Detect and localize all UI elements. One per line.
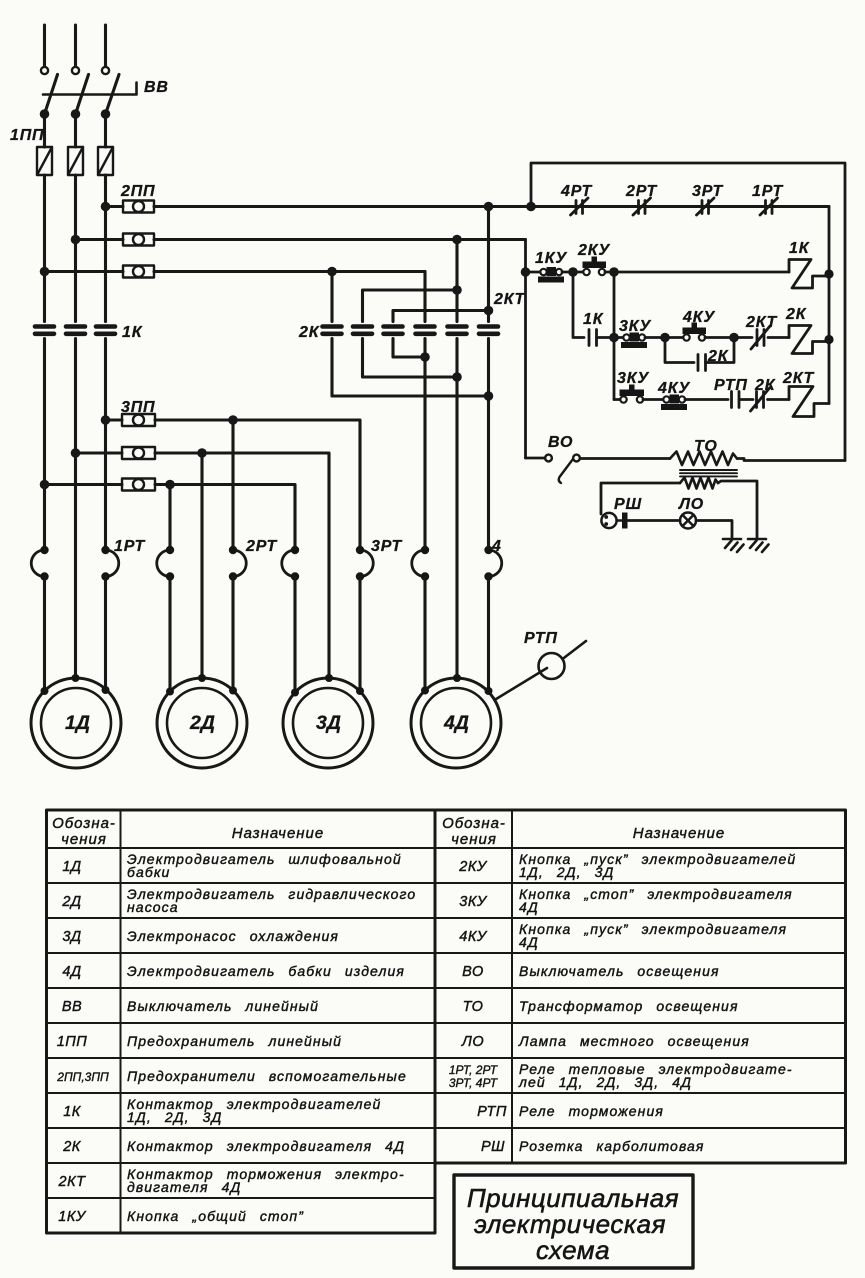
wire L2 fuse to contact [74,175,77,322]
svg-text:2ПП,3ПП: 2ПП,3ПП [56,1070,109,1084]
wire branch F upper [487,207,490,322]
svg-text:2КТ: 2КТ [782,370,815,387]
wire top bypass to outer rail [531,163,845,461]
wire fuse1 output to control [154,205,829,208]
relay contact 2RT [633,198,651,215]
wire feeder to VO switch [526,457,546,460]
contact 2KT NC row2 [751,326,770,349]
junction row2 after 4KU [729,333,739,343]
svg-text:4Д: 4Д [62,964,81,980]
junction L3 below switch [101,109,111,119]
junction L1 below switch [40,109,50,119]
wire phase L1 incoming [43,25,46,67]
table header texts [52,815,725,848]
svg-text:Электродвигатель бабки изделия: Электродвигатель бабки изделия [127,963,405,979]
transformer TO primary winding [670,452,737,466]
thermal element 4RT right [484,546,501,581]
svg-text:Контактор электродвигателя 4Д: Контактор электродвигателя 4Д [127,1138,405,1154]
wire row1 seg2 [562,271,583,274]
svg-text:1К: 1К [583,311,604,328]
svg-text:Кнопка „стоп” электродвигателя: Кнопка „стоп” электродвигателя [519,886,793,902]
contactor 2K contact B [353,327,372,334]
table left column texts [56,851,416,1225]
junction row2 before 4KU [660,333,670,343]
junction E at B top join [452,285,462,295]
contactor 2KT contact F [479,327,498,334]
switch BB blade 2 [76,75,89,115]
contactor 1K main contact pole 2 [66,327,85,334]
svg-text:2КУ: 2КУ [577,242,610,259]
motor 4D [411,674,501,768]
relay contact 3RT [697,198,715,215]
relay coil 1K [789,260,829,289]
svg-text:4Д: 4Д [443,712,469,734]
title box frame [454,1175,693,1268]
wire branch E lower to motor4 mid [455,339,458,678]
wire row3 seg4 [739,398,753,401]
wire L2 contact to 3PP [74,339,77,678]
table row lines right [435,848,846,1128]
svg-text:2КТ: 2КТ [58,1174,87,1190]
junction L2 at 2PP branch [71,235,81,245]
contact RTP row3 [732,392,740,408]
relay coil 2KT [789,387,829,417]
svg-text:Реле торможения: Реле торможения [519,1103,664,1119]
svg-text:РШ: РШ [614,496,642,513]
wire phase L2 incoming [74,25,77,67]
svg-text:1РТ: 1РТ [752,183,784,200]
svg-text:1Д: 1Д [65,712,90,734]
wire drop motor2 left [168,485,171,550]
wire fuse2 output [154,238,526,241]
wire L3 contact to 3PP [104,339,107,550]
wire row2 to 2K coil [768,336,789,339]
svg-text:чения: чения [451,831,497,848]
svg-text:Предохранители вспомогательные: Предохранители вспомогательные [127,1068,407,1084]
svg-text:двигателя 4Д: двигателя 4Д [127,1179,241,1195]
svg-text:Выключатель освещения: Выключатель освещения [519,963,720,979]
wire branch B lower to E [363,339,458,378]
svg-text:1КУ: 1КУ [58,1209,87,1225]
contact 2K NC row3 [751,388,770,411]
svg-text:3КУ: 3КУ [459,894,488,910]
svg-text:1ПП: 1ПП [10,127,44,144]
motor 1D [31,674,121,768]
junction rail at 1K coil [824,269,833,278]
junction F at A bottom join [484,391,494,401]
junction L2 below switch [71,109,81,119]
svg-text:3КУ: 3КУ [619,318,651,335]
wire fuse3 output [154,270,425,273]
svg-text:2К: 2К [62,1139,82,1155]
button 3KU row3 [620,385,645,403]
wire motor3 leads [295,577,360,692]
svg-text:бабки: бабки [127,864,170,880]
junction L2 at 3PP branch [71,448,81,458]
svg-text:1К: 1К [789,240,810,257]
contactor 1K main contact pole 3 [96,327,115,334]
button 4KU row3 [661,395,687,411]
svg-text:2К: 2К [785,306,807,323]
junction feeder at row1 [521,267,531,277]
svg-text:1РТ, 2РТ: 1РТ, 2РТ [449,1063,499,1077]
wire L3 switch to fuse [104,114,107,147]
wire branch A upper [330,272,333,322]
table right column texts [449,851,796,1155]
svg-text:4КУ: 4КУ [682,309,715,326]
motor 3D [283,674,373,768]
button 4KU row2 [683,323,707,341]
junction row1 after 2KU [609,267,619,277]
svg-text:ЛО: ЛО [678,496,704,513]
wire branch A lower to F [332,339,489,397]
wire 3PP-1 output to motor3 right [155,420,360,550]
transformer TO core [680,470,737,476]
wire row3 seg2 [643,398,663,401]
button 3KU row2 [621,333,647,349]
relay RTP sensor [495,641,587,700]
wire drop motor2 mid [200,453,203,678]
wire L3 fuse to contact [104,175,107,322]
svg-text:Назначение: Назначение [633,825,725,842]
wire branch B upper from E [363,290,458,322]
wire row2 start [614,336,623,339]
contact 1K aux [589,330,597,346]
wire row3 start [614,398,620,401]
contactor 2K contact C [384,327,403,334]
svg-text:2РТ: 2РТ [245,538,278,555]
wire drop motor2 right [231,420,234,550]
svg-text:2Д: 2Д [189,712,215,734]
svg-text:3Д: 3Д [316,712,341,734]
wire hold branch to node [597,336,615,339]
svg-text:Кнопка „пуск” электродвигателя: Кнопка „пуск” электродвигателя [519,921,787,937]
svg-text:3Д: 3Д [62,929,81,945]
wire primary right to outer rail [737,459,845,461]
svg-text:РТП: РТП [524,630,558,647]
svg-text:2К: 2К [754,377,776,394]
junction 3PP-3 to motor2 left [165,480,175,490]
svg-text:РШ: РШ [481,1139,505,1155]
svg-text:3РТ, 4РТ: 3РТ, 4РТ [449,1076,499,1090]
junction L3 at 2PP branch [101,202,111,212]
relay coil 2K [789,326,829,354]
svg-text:2РТ: 2РТ [625,183,658,200]
switch VO [545,455,580,483]
wire socket to lamp [628,519,681,522]
wire secondary left to socket [601,483,680,514]
wire row3 seg3 [685,398,728,401]
junction F at C top join [484,306,494,316]
relay contact 4RT [571,198,589,215]
wire row2 seg3 [705,336,752,339]
svg-text:ВВ: ВВ [62,999,82,1015]
switch BB pole 3 hinge [102,67,109,74]
thermal element 1RT left [31,546,48,581]
wire 2K hold branch right [706,338,735,363]
lamp LO [680,513,696,529]
wire secondary right to ground [718,481,757,537]
svg-text:Обозна-: Обозна- [52,815,116,832]
thermal element 2RT left [157,546,174,581]
fuse 3PP-3 [45,479,156,491]
svg-text:2КТ: 2КТ [493,291,526,308]
wire phase L3 incoming [104,25,107,67]
svg-text:1К: 1К [122,324,143,341]
svg-text:1РТ: 1РТ [114,538,146,555]
junction D at C join [420,352,430,362]
svg-text:2ПП: 2ПП [120,183,155,200]
wire row2 seg2 [645,336,683,339]
transformer TO secondary winding [680,478,718,489]
svg-text:2КТ: 2КТ [745,314,778,331]
svg-text:1КУ: 1КУ [535,250,567,267]
svg-text:ВО: ВО [548,434,573,451]
junction row1 after 1KU [568,267,578,277]
switch BB blade 3 [106,75,120,115]
junction L1 at 2PP branch [40,267,50,277]
junction rail at 2K coil [824,335,833,344]
svg-text:3РТ: 3РТ [692,183,724,200]
contactor 1K main contact pole 1 [35,327,54,334]
svg-text:2К: 2К [298,324,320,341]
thermal element 3RT right [356,546,373,581]
svg-text:РТП: РТП [714,377,748,394]
svg-text:3РТ: 3РТ [371,538,403,555]
wire motor1 leads [45,577,106,692]
svg-text:ВВ: ВВ [144,79,169,96]
contactor 2KT contact E [448,327,467,334]
wire motor2 leads [170,577,233,692]
ground transformer side [748,539,769,552]
svg-text:Трансформатор освещения: Трансформатор освещения [519,998,739,1014]
wire branch D lower to motor4 left [423,339,426,550]
svg-text:4РТ: 4РТ [560,183,593,200]
thermal element 3RT left [282,546,299,581]
wire L1 contact to 3PP [43,339,46,550]
svg-text:Розетка карболитовая: Розетка карболитовая [519,1138,705,1154]
motor 2D [157,674,247,768]
junction L3 at 3PP branch [101,415,111,425]
button 1KU [538,267,564,283]
svg-text:4КУ: 4КУ [657,380,690,397]
thermal element 2RT right [229,546,246,581]
svg-text:ТО: ТО [694,438,718,455]
svg-text:Лампа местного освещения: Лампа местного освещения [518,1033,750,1049]
junction branch E on fuse2 line [452,235,462,245]
svg-text:Выключатель линейный: Выключатель линейный [127,998,319,1014]
wire inner rail [828,207,831,404]
svg-text:насоса: насоса [127,899,179,915]
table column dividers [121,810,513,1233]
fuse 3PP-1 [106,414,156,426]
svg-text:Назначение: Назначение [232,825,324,842]
wire branch C upper to F [393,311,489,322]
wire 3PP-2 output to motor3 mid [155,453,329,678]
svg-text:Электронасос охлаждения: Электронасос охлаждения [127,928,339,944]
svg-text:1К: 1К [63,1104,82,1120]
switch BB blade 1 [45,75,58,115]
button 2KU [583,257,607,276]
svg-text:1ПП: 1ПП [57,1034,88,1050]
thermal element 1RT right [101,546,118,581]
svg-text:ТО: ТО [463,999,484,1015]
fuse 2PP-3 [45,266,155,278]
wire L2 switch to fuse [74,114,77,147]
wire lamp to ground [696,521,732,538]
junction 3PP-2 to motor2 mid [197,448,207,458]
svg-text:ЛО: ЛО [461,1034,484,1050]
svg-text:Кнопка „общий стоп”: Кнопка „общий стоп” [127,1208,304,1224]
svg-text:2Д: 2Д [61,894,81,910]
wire hold branch down [573,272,584,338]
fuse 1PP pole 2 [68,147,83,175]
wire 2K hold branch [665,338,694,363]
wire branch F lower to motor4 right [487,339,490,550]
svg-text:4КУ: 4КУ [459,929,488,945]
wire VO to transformer [580,457,670,460]
switch BB pole 1 hinge [41,67,48,74]
svg-text:Обозна-: Обозна- [442,815,506,832]
fuse 1PP pole 3 [98,147,113,175]
svg-text:ВО: ВО [462,964,484,980]
svg-text:4Д: 4Д [519,899,539,915]
wire row1 start [526,271,541,274]
svg-text:Предохранитель линейный: Предохранитель линейный [127,1033,342,1049]
title text [467,1183,679,1265]
junction branch F on fuse1 line [484,202,494,212]
wire motor4 leads [425,577,489,692]
wire node vertical x614 [613,272,616,400]
svg-text:РТП: РТП [477,1104,507,1120]
contact 2K aux [698,355,706,371]
contactor 2K contact A [323,327,342,334]
svg-text:1Д, 2Д, 3Д: 1Д, 2Д, 3Д [127,1109,223,1125]
junction fuse1 line at x531 [526,202,536,212]
junction branch A on fuse3 line [327,267,337,277]
contactor 2KT contact D [416,327,435,334]
wire row1 to 1K coil [605,271,789,274]
switch BB linkage bar [43,83,137,95]
table outer frame right [435,810,846,1163]
junction L1 at 3PP branch [40,480,50,490]
table outer frame left [47,810,436,1233]
wire branch C lower to D [393,339,425,358]
ground lamp side [723,539,744,552]
table row lines left [47,848,436,1198]
switch BB pole 2 hinge [72,67,79,74]
svg-text:1Д: 1Д [62,859,81,875]
relay contact 1RT [760,198,778,215]
svg-text:3КУ: 3КУ [617,370,649,387]
svg-text:чения: чения [61,831,107,848]
svg-text:2КУ: 2КУ [458,859,488,875]
svg-text:схема: схема [536,1235,610,1265]
fuse 2PP-1 [106,201,155,213]
junction x614 row2 [609,333,619,343]
svg-text:1Д, 2Д, 3Д: 1Д, 2Д, 3Д [519,864,615,880]
wire 3PP-3 output to motor3 left [155,485,295,550]
junction E at B bottom join [452,372,462,382]
fuse 1PP pole 1 [37,147,52,175]
wire feeder x525 down [524,240,527,459]
wire row3 to 2KT coil [768,398,790,401]
junction 3PP-1 to motor2 right [228,415,238,425]
wire L1 switch to fuse [43,114,46,147]
wire branch E upper [455,240,458,322]
fuse 3PP-2 [76,447,156,459]
svg-text:лей 1Д, 2Д, 3Д, 4Д: лей 1Д, 2Д, 3Д, 4Д [518,1074,692,1090]
fuse 2PP-2 [76,234,155,246]
socket RSh [601,513,627,529]
thermal element 4RT left [412,546,429,581]
svg-text:4Д: 4Д [519,934,539,950]
wire L1 fuse to contact [43,175,46,322]
wire branch D upper [423,272,426,322]
